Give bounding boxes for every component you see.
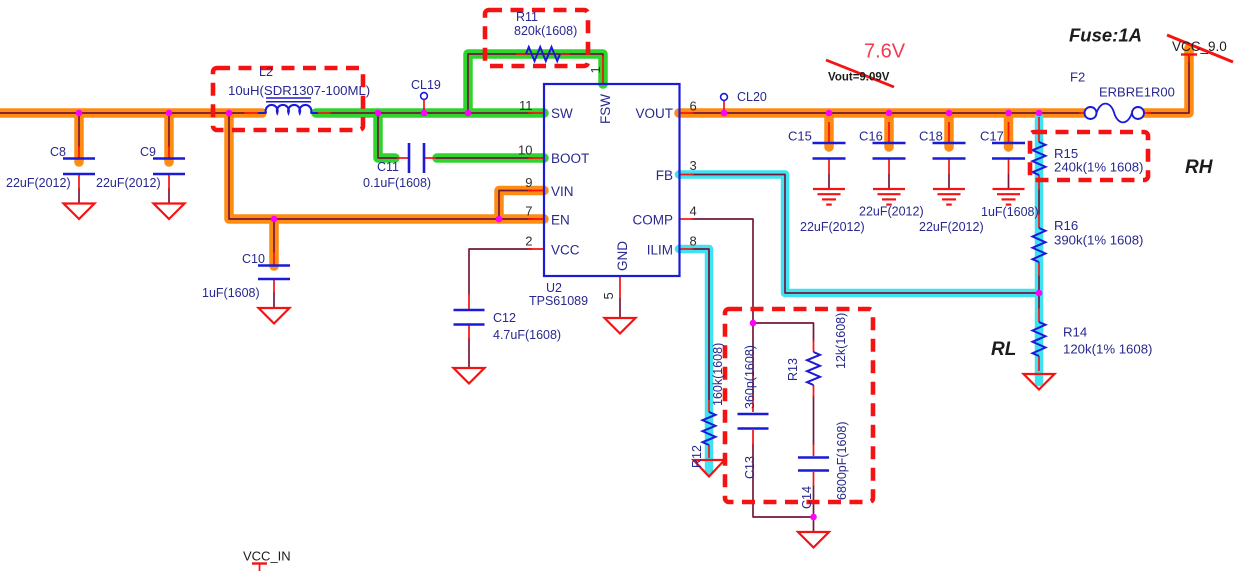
svg-text:22uF(2012): 22uF(2012) <box>6 176 71 190</box>
wire C16 lower <box>888 174 890 188</box>
junction node 5 <box>421 110 428 117</box>
wire COMP to R13 <box>753 323 814 341</box>
pin C10 bottom <box>273 279 275 293</box>
pin U2 VIN <box>528 190 545 192</box>
pin R15 bottom <box>1038 175 1040 190</box>
label C13 rotated <box>743 456 757 479</box>
pin U2 VOUT <box>679 112 695 114</box>
svg-text:RH: RH <box>1185 157 1214 178</box>
wire highlight C15 stub <box>824 113 834 147</box>
pin number 8 <box>690 234 697 249</box>
value C14 rotated <box>835 421 849 500</box>
svg-text:C17: C17 <box>980 129 1004 144</box>
pin R16 top <box>1038 214 1040 228</box>
probe CL19 <box>423 99 425 112</box>
svg-text:C15: C15 <box>788 129 812 144</box>
junction node 9 <box>721 110 728 117</box>
wire VOUT run <box>692 112 1081 114</box>
wire divider segments <box>1038 189 1040 309</box>
junction node 16 <box>750 320 757 327</box>
wire VCC pin to C12 <box>469 249 532 294</box>
annotation Fuse:1A <box>1069 25 1142 46</box>
op-amp U2 body TPS61089 <box>544 84 680 276</box>
wire FSW loop <box>468 54 603 113</box>
power symbol VCC_IN <box>252 564 267 571</box>
wire VIN main <box>0 112 245 114</box>
value C11 <box>363 176 431 190</box>
svg-text:COMP: COMP <box>633 213 674 228</box>
pin C8 bottom <box>78 174 80 189</box>
wire R13 to C14 <box>813 396 815 445</box>
pin C17 bottom <box>1008 159 1010 174</box>
wire highlight VOUT net <box>679 108 1085 118</box>
pin C16 bottom <box>888 159 890 174</box>
wire C12 to ground <box>468 338 470 368</box>
junction node 2 <box>166 110 173 117</box>
svg-text:360p(1608): 360p(1608) <box>743 345 757 409</box>
ground C15 <box>813 189 845 205</box>
label C11 <box>377 160 399 174</box>
svg-text:1uF(1608): 1uF(1608) <box>981 205 1039 219</box>
svg-text:6: 6 <box>690 99 697 114</box>
pin R15 top <box>1038 117 1040 142</box>
net label VCC_IN <box>243 549 291 564</box>
value C17 <box>981 205 1039 219</box>
value C8 <box>6 176 71 190</box>
red slash over Vout=9.09V <box>826 60 894 87</box>
capacitor C9 plates <box>153 159 185 175</box>
wire highlight VIN/EN branch <box>229 113 544 219</box>
fuse F2 symbol <box>1085 104 1145 123</box>
svg-text:R13: R13 <box>786 358 800 381</box>
wire highlight VIN net main horizontal <box>0 108 262 118</box>
label R16 <box>1054 218 1078 233</box>
pin R13 bottom <box>813 385 815 397</box>
pin U2 BOOT <box>528 157 545 159</box>
svg-text:C13: C13 <box>743 456 757 479</box>
svg-text:0.1uF(1608): 0.1uF(1608) <box>363 176 431 190</box>
ground C16 <box>873 189 905 205</box>
label C10 <box>242 252 265 266</box>
pin name FB <box>656 168 673 183</box>
wire VIN pin branch <box>499 191 532 220</box>
wire highlight VIN pin branch <box>499 191 544 220</box>
ground C13/C14 <box>798 532 829 548</box>
svg-text:R14: R14 <box>1063 325 1087 340</box>
pin L2 left <box>244 112 260 114</box>
pin R14 top <box>1038 308 1040 322</box>
label C14 rotated <box>800 486 814 509</box>
inductor L2 <box>258 98 318 113</box>
svg-text:160k(1608): 160k(1608) <box>711 343 725 406</box>
svg-text:4: 4 <box>690 204 697 219</box>
label C15 <box>788 129 812 144</box>
svg-text:VOUT: VOUT <box>635 106 673 121</box>
junction node 11 <box>886 110 893 117</box>
pin F2 right <box>1143 112 1151 114</box>
wire VIN vertical + EN run <box>229 113 532 219</box>
label R13 rotated <box>786 358 800 381</box>
svg-text:CL20: CL20 <box>737 90 767 104</box>
pin number 3 <box>690 158 697 173</box>
value C12 <box>493 328 561 342</box>
pin C11 left <box>397 157 408 159</box>
pin name COMP <box>633 213 674 228</box>
wire C18 lower <box>948 174 950 188</box>
svg-text:7: 7 <box>525 204 532 219</box>
pin name EN <box>551 213 570 228</box>
ground C12 <box>454 368 485 384</box>
annotation Vout=9.09V <box>828 72 890 84</box>
pin C9 bottom <box>168 174 170 189</box>
pin name VOUT <box>635 106 673 121</box>
pin number 2 <box>525 234 532 249</box>
svg-text:FB: FB <box>656 168 673 183</box>
pin U2 COMP <box>679 218 695 220</box>
annotation RL <box>991 339 1016 360</box>
pin name GND rotated <box>615 241 630 271</box>
svg-text:6800pF(1608): 6800pF(1608) <box>835 421 849 500</box>
svg-text:C9: C9 <box>140 145 156 159</box>
pin R16 bottom <box>1038 262 1040 276</box>
pin name ILIM <box>647 243 673 258</box>
value C13 rotated <box>743 345 757 409</box>
wire highlight FB net <box>679 175 1039 294</box>
wire highlight VCC_9.0 feed <box>1143 48 1189 113</box>
value C18 <box>919 220 984 234</box>
label CL19 <box>411 78 441 92</box>
annotation 7.6V <box>864 41 906 63</box>
resistor R11 zigzag <box>526 47 560 61</box>
svg-text:ERBRE1R00: ERBRE1R00 <box>1099 85 1175 100</box>
svg-text:4.7uF(1608): 4.7uF(1608) <box>493 328 561 342</box>
svg-text:7.6V: 7.6V <box>864 41 906 63</box>
svg-text:FSW: FSW <box>598 94 613 124</box>
label R11 <box>516 10 538 24</box>
marker box around R11 <box>485 10 588 66</box>
ground C17 <box>993 189 1025 205</box>
label C9 <box>140 145 156 159</box>
red slash over VCC_9.0 <box>1167 35 1233 62</box>
svg-text:5: 5 <box>601 292 616 299</box>
svg-text:C14: C14 <box>800 486 814 509</box>
wire highlight ILIM net <box>679 249 709 472</box>
pin C14 top <box>813 444 815 456</box>
pin number 11 <box>519 98 533 113</box>
capacitor C13 plates <box>738 414 769 429</box>
junction node 1 <box>76 110 83 117</box>
value L2 <box>228 83 370 98</box>
svg-text:C10: C10 <box>242 252 265 266</box>
junction node 4 <box>375 110 382 117</box>
svg-text:GND: GND <box>615 241 630 271</box>
pin C18 top <box>948 122 950 144</box>
pin U2 GND <box>619 276 621 298</box>
pin name FSW rotated <box>598 94 613 124</box>
pin C8 top <box>78 146 80 158</box>
pin C18 bottom <box>948 159 950 174</box>
svg-text:C8: C8 <box>50 145 66 159</box>
wire C10 tap <box>273 219 275 253</box>
wire R12 ILIM segment <box>708 249 710 400</box>
pin C12 top <box>468 293 470 309</box>
pin number 9 <box>525 175 532 190</box>
pin name VIN <box>551 184 574 199</box>
annotation RH <box>1185 157 1214 178</box>
pin name SW <box>551 106 573 121</box>
wire C8 segments <box>78 113 80 204</box>
value C16 <box>859 205 924 219</box>
wire highlight C11 branch <box>378 113 395 158</box>
value R12 rotated <box>711 343 725 406</box>
pin U2 FB <box>679 174 695 176</box>
wire ILIM net <box>692 249 709 400</box>
svg-text:CL19: CL19 <box>411 78 441 92</box>
svg-text:22uF(2012): 22uF(2012) <box>96 176 161 190</box>
label F2 <box>1070 70 1085 85</box>
svg-text:C16: C16 <box>859 129 883 144</box>
pin R13 top <box>813 340 815 352</box>
pin number 7 <box>525 204 532 219</box>
junction node 15 <box>1036 290 1043 297</box>
pin U2 ILIM <box>679 248 695 250</box>
pin C9 top <box>168 146 170 158</box>
pin R11 right <box>559 53 570 55</box>
svg-text:R11: R11 <box>516 10 538 24</box>
wire C15 lower <box>828 174 830 188</box>
net label VCC_9.0 <box>1172 39 1227 54</box>
pin name BOOT <box>551 151 589 166</box>
wire highlight C8 stub <box>74 113 84 162</box>
pin R11 left <box>516 53 527 55</box>
value U2 <box>529 294 588 308</box>
svg-text:SW: SW <box>551 106 573 121</box>
label L2 <box>259 65 273 79</box>
svg-text:C18: C18 <box>919 129 943 144</box>
label C18 <box>919 129 943 144</box>
svg-text:120k(1% 1608): 120k(1% 1608) <box>1063 342 1152 357</box>
ground C10 <box>259 308 290 324</box>
svg-text:11: 11 <box>519 98 533 113</box>
pin U2 EN <box>528 218 545 220</box>
pin U2 FSW <box>602 56 604 84</box>
label R12 rotated <box>690 445 704 468</box>
resistor R15 zigzag <box>1033 142 1046 175</box>
marker box around R15 <box>1030 132 1148 180</box>
svg-text:12k(1608): 12k(1608) <box>834 313 848 369</box>
svg-text:22uF(2012): 22uF(2012) <box>919 220 984 234</box>
pin R12 bottom <box>708 445 710 458</box>
wire C14 bottom <box>813 485 815 517</box>
marker box around L2 <box>213 68 363 130</box>
pin U2 SW <box>528 112 545 114</box>
value R16 <box>1054 233 1143 248</box>
value R13 rotated <box>834 313 848 369</box>
svg-text:BOOT: BOOT <box>551 151 589 166</box>
junction node 13 <box>1005 110 1012 117</box>
value F2 <box>1099 85 1175 100</box>
svg-text:R12: R12 <box>690 445 704 468</box>
svg-text:ILIM: ILIM <box>647 243 673 258</box>
label U2 <box>546 281 562 295</box>
svg-text:VCC_9.0: VCC_9.0 <box>1172 39 1227 54</box>
label C17 <box>980 129 1004 144</box>
wire C11 branch <box>378 113 397 158</box>
wire highlight C18 stub <box>944 113 954 147</box>
junction node 6 <box>465 110 472 117</box>
resistor R14 zigzag <box>1033 322 1046 356</box>
svg-text:1uF(1608): 1uF(1608) <box>202 286 260 300</box>
value C10 <box>202 286 260 300</box>
svg-text:9: 9 <box>525 175 532 190</box>
pin C15 bottom <box>828 159 830 174</box>
value R14 <box>1063 342 1152 357</box>
wire highlight C17 stub <box>1004 113 1014 147</box>
label R15 <box>1054 146 1078 161</box>
pin C11 right <box>425 157 436 159</box>
svg-text:3: 3 <box>690 158 697 173</box>
svg-text:1: 1 <box>588 66 603 73</box>
svg-text:RL: RL <box>991 339 1016 360</box>
svg-text:C12: C12 <box>493 311 516 325</box>
svg-text:Fuse:1A: Fuse:1A <box>1069 25 1142 46</box>
label CL20 <box>737 90 767 104</box>
label C8 <box>50 145 66 159</box>
resistor R12 zigzag <box>703 412 716 445</box>
capacitor C17 plates <box>992 143 1025 159</box>
svg-text:820k(1608): 820k(1608) <box>514 24 577 38</box>
pin U2 VCC <box>528 248 545 250</box>
junction node 12 <box>946 110 953 117</box>
wire highlight C16 stub <box>884 113 894 147</box>
wire C13 bottom to ground <box>753 444 814 532</box>
pin C10 top <box>273 252 275 265</box>
marker box around R12/C13/R13/C14 <box>725 309 873 502</box>
svg-text:TPS61089: TPS61089 <box>529 294 588 308</box>
capacitor C12 plates <box>454 310 485 325</box>
pin C12 bottom <box>468 325 470 339</box>
wire BOOT segment <box>436 157 532 159</box>
wire COMP net <box>692 219 753 398</box>
wire FB net <box>692 175 1039 294</box>
resistor R16 zigzag <box>1033 228 1046 262</box>
capacitor C16 plates <box>873 143 906 159</box>
wire highlight C9 stub <box>164 113 174 162</box>
svg-text:U2: U2 <box>546 281 562 295</box>
svg-text:2: 2 <box>525 234 532 249</box>
ground R14 <box>1024 374 1055 390</box>
pin number 10 <box>518 143 532 158</box>
value C9 <box>96 176 161 190</box>
svg-text:R16: R16 <box>1054 218 1078 233</box>
capacitor C14 plates <box>798 458 829 471</box>
junction node 7 <box>271 216 278 223</box>
pin C13 bottom <box>752 430 754 445</box>
pin R12 top <box>708 400 710 412</box>
value R11 <box>514 24 577 38</box>
wire SW net <box>330 112 532 114</box>
wire C9 segments <box>168 113 170 204</box>
capacitor C18 plates <box>933 143 966 159</box>
pin C16 top <box>888 122 890 144</box>
junction node 3 <box>226 110 233 117</box>
pin R14 bottom <box>1038 356 1040 371</box>
ground U2 GND pin <box>605 318 636 334</box>
svg-text:390k(1% 1608): 390k(1% 1608) <box>1054 233 1143 248</box>
svg-text:EN: EN <box>551 213 570 228</box>
junction node 14 <box>1036 110 1043 117</box>
pin C15 top <box>828 122 830 144</box>
pin number 5 rotated <box>601 292 616 299</box>
svg-text:F2: F2 <box>1070 70 1085 85</box>
svg-text:10uH(SDR1307-100ML): 10uH(SDR1307-100ML) <box>228 83 370 98</box>
svg-text:VCC_IN: VCC_IN <box>243 549 291 564</box>
svg-text:VCC: VCC <box>551 243 580 258</box>
value R15 <box>1054 160 1143 175</box>
wire C10 lower segment <box>273 292 275 308</box>
wire fuse to VCC corner <box>1148 57 1189 113</box>
junction node 8 <box>496 216 503 223</box>
capacitor C10 plates <box>258 266 290 280</box>
wire highlight feedback divider <box>1035 117 1044 382</box>
ground C8 <box>64 204 95 220</box>
capacitor C11 plates <box>409 143 424 173</box>
value C15 <box>800 220 865 234</box>
junction node 10 <box>826 110 833 117</box>
power symbol VCC_9.0 <box>1181 55 1197 63</box>
wire highlight BOOT segment <box>437 153 544 163</box>
svg-text:Vout=9.09V: Vout=9.09V <box>828 72 890 84</box>
wire highlight SW net <box>316 108 544 118</box>
label C16 <box>859 129 883 144</box>
pin L2 right <box>317 112 332 114</box>
junction node 17 <box>810 514 817 521</box>
pin F2 left <box>1079 112 1086 114</box>
capacitor C15 plates <box>813 143 846 159</box>
svg-text:240k(1% 1608): 240k(1% 1608) <box>1054 160 1143 175</box>
pin C17 top <box>1008 122 1010 144</box>
label C12 <box>493 311 516 325</box>
ground C9 <box>154 204 185 220</box>
capacitor C8 plates <box>63 159 95 175</box>
pin number 6 <box>690 99 697 114</box>
wire highlight FSW loop <box>468 54 603 113</box>
ground C18 <box>933 189 965 205</box>
svg-text:8: 8 <box>690 234 697 249</box>
svg-text:10: 10 <box>518 143 532 158</box>
svg-text:L2: L2 <box>259 65 273 79</box>
ground R12 <box>694 460 725 477</box>
wire C17 lower <box>1008 174 1010 188</box>
svg-text:22uF(2012): 22uF(2012) <box>800 220 865 234</box>
svg-text:22uF(2012): 22uF(2012) <box>859 205 924 219</box>
pin number 1 rotated <box>588 66 603 73</box>
label R14 <box>1063 325 1087 340</box>
resistor R13 zigzag <box>807 352 820 385</box>
pin name VCC <box>551 243 580 258</box>
probe circle CL19 <box>421 93 428 100</box>
wire highlight C10 stub <box>269 219 279 266</box>
svg-text:VIN: VIN <box>551 184 574 199</box>
pin number 4 <box>690 204 697 219</box>
svg-text:C11: C11 <box>377 160 399 174</box>
wire GND pin 5 lower <box>619 298 621 318</box>
probe CL20 <box>723 100 725 112</box>
pin C13 top <box>752 398 754 412</box>
probe circle CL20 <box>721 94 728 101</box>
pin C14 bottom <box>813 472 815 486</box>
